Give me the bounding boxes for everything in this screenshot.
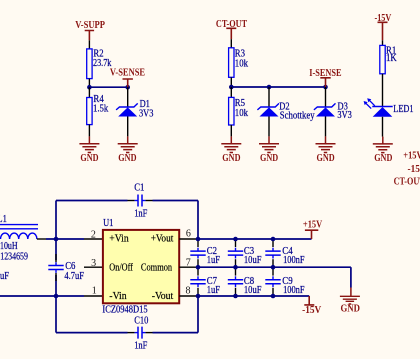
svg-text:3: 3: [91, 258, 96, 269]
svg-text:V-SUPP: V-SUPP: [75, 20, 105, 31]
svg-text:GND: GND: [118, 153, 136, 164]
svg-text:10k: 10k: [235, 108, 249, 119]
svg-text:2: 2: [91, 229, 96, 240]
svg-text:1uF: 1uF: [207, 285, 220, 296]
svg-text:-15V: -15V: [302, 305, 322, 316]
svg-text:ICZ0948D15: ICZ0948D15: [102, 305, 147, 316]
svg-text:-15V: -15V: [375, 13, 392, 24]
svg-text:1nF: 1nF: [134, 341, 147, 352]
svg-text:8: 8: [186, 286, 191, 297]
svg-text:3V3: 3V3: [139, 109, 153, 120]
svg-text:CT-OUT: CT-OUT: [394, 176, 420, 187]
svg-text:On/Off: On/Off: [109, 262, 133, 273]
svg-text:C1: C1: [134, 182, 144, 193]
svg-text:1234659: 1234659: [0, 251, 28, 262]
svg-text:GND: GND: [317, 153, 335, 164]
svg-text:GND: GND: [374, 153, 392, 164]
svg-text:Common: Common: [141, 262, 173, 273]
svg-text:3V3: 3V3: [337, 110, 351, 121]
svg-text:10k: 10k: [235, 58, 249, 69]
svg-text:L1: L1: [0, 214, 7, 225]
svg-text:-15V: -15V: [408, 164, 420, 175]
svg-text:GND: GND: [260, 153, 278, 164]
svg-text:uF: uF: [0, 271, 9, 282]
svg-text:1nF: 1nF: [134, 208, 147, 219]
svg-text:-Vin: -Vin: [109, 291, 127, 302]
svg-text:I-SENSE: I-SENSE: [309, 68, 341, 79]
svg-text:10uF: 10uF: [244, 285, 262, 296]
svg-text:C10: C10: [134, 316, 148, 327]
svg-text:LED1: LED1: [393, 104, 413, 115]
svg-text:100nF: 100nF: [283, 285, 305, 296]
svg-text:U1: U1: [103, 218, 113, 229]
svg-text:+15V: +15V: [403, 151, 420, 162]
svg-text:1: 1: [92, 286, 97, 297]
svg-text:GND: GND: [80, 153, 98, 164]
svg-text:6: 6: [186, 229, 191, 240]
svg-text:100nF: 100nF: [283, 255, 305, 266]
svg-text:+Vin: +Vin: [109, 234, 129, 245]
svg-text:+15V: +15V: [303, 220, 323, 231]
svg-text:-Vout: -Vout: [152, 291, 174, 302]
svg-text:GND: GND: [222, 153, 240, 164]
svg-text:7: 7: [186, 258, 191, 269]
svg-text:4.7uF: 4.7uF: [64, 271, 84, 282]
svg-text:1uF: 1uF: [207, 255, 220, 266]
svg-text:1.5k: 1.5k: [93, 104, 109, 115]
svg-text:GND: GND: [340, 304, 360, 315]
svg-text:Schottkey: Schottkey: [280, 111, 315, 122]
svg-text:10uF: 10uF: [244, 255, 262, 266]
svg-text:23.7k: 23.7k: [93, 58, 112, 69]
svg-text:1K: 1K: [386, 53, 397, 64]
svg-text:V-SENSE: V-SENSE: [110, 68, 145, 79]
svg-text:CT-OUT: CT-OUT: [216, 19, 247, 30]
svg-text:+Vout: +Vout: [151, 234, 174, 245]
